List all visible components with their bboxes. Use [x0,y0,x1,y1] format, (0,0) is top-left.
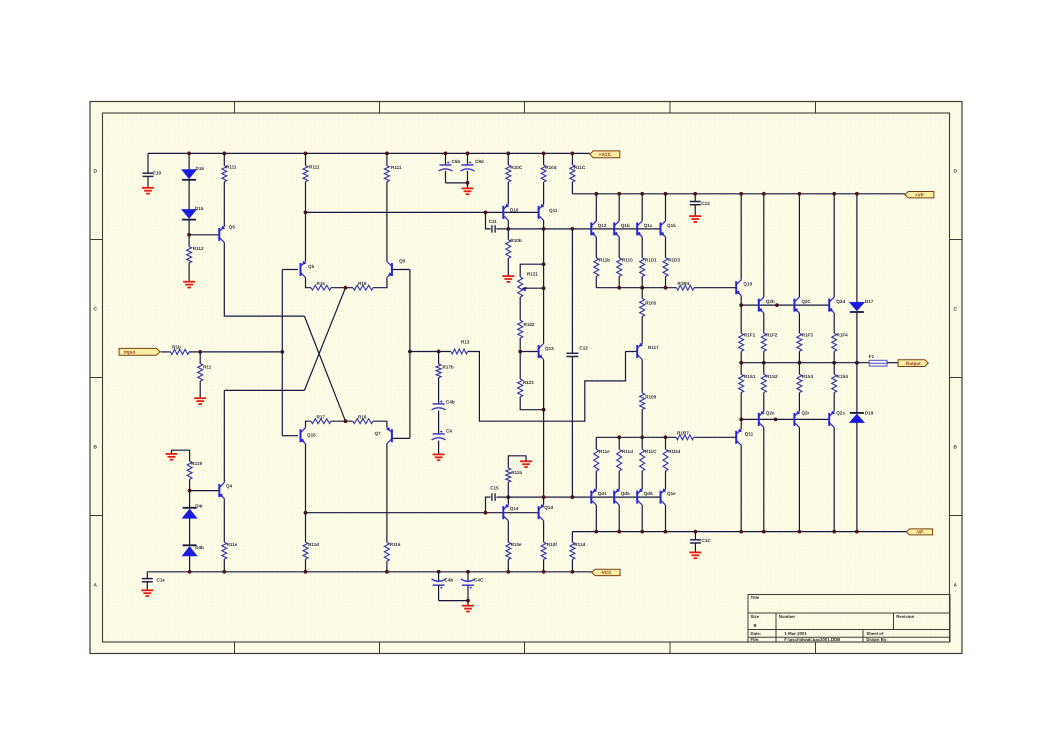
wire R1F2-out [763,351,765,362]
svg-text:R17b: R17b [443,364,454,369]
svg-text:Q2r: Q2r [801,410,809,415]
svg-text:C1C: C1C [702,538,712,543]
capacitor C6 [445,153,447,165]
svg-text:R117: R117 [648,345,659,350]
wire output base line top [741,304,829,306]
transistor Qd5 [613,491,615,504]
wire Q11e down [543,229,545,344]
junction -VCC R116 [385,570,389,574]
svg-text:Q1e: Q1e [667,491,676,496]
power port +VP [905,192,934,198]
wire rail-R111a [223,153,225,165]
svg-text:-VP: -VP [916,530,924,535]
junction -VCC R11d [571,570,575,574]
svg-text:Qd6: Qd6 [644,491,653,496]
wire Q12 collector [595,194,597,221]
svg-text:R111: R111 [391,165,402,170]
wire Q2s collector [833,427,835,531]
capacitor C16 [694,532,696,540]
svg-text:R11d: R11d [308,542,319,547]
resistor R111c [305,153,307,165]
wire R15-R16 [331,287,353,289]
transistor Q2d [828,299,830,312]
wire Q17 base [392,437,410,439]
svg-text:R11: R11 [203,365,212,370]
transistor Q5 [300,263,302,276]
resistor R1S2 [763,363,765,375]
transistor Q2r [793,413,795,426]
svg-text:R11d: R11d [622,449,633,454]
transistor Q14 [502,506,504,519]
svg-text:R11C: R11C [645,449,657,454]
resistor R123 [519,352,521,380]
wire Q19 collector [740,194,742,280]
wire R1Dd-Q1e [665,471,667,489]
junction top rail R111a [222,152,226,156]
wire mid rail bottom [306,512,539,514]
junction -VCC diodes [188,570,192,574]
svg-text:B: B [954,445,958,451]
wire R119-node [189,479,191,508]
junction rail C4C [466,570,470,574]
transistor Q1b [613,222,615,235]
svg-text:D16: D16 [196,166,205,171]
resistor R1F2 [761,333,766,351]
transistor Q1e [660,491,662,504]
junction -VP rail Qd6 [640,530,644,534]
wire D17 column [856,194,858,303]
resistor R1F3 [797,333,802,351]
svg-text:R16: R16 [358,281,367,286]
wire node-Q6 base [189,234,219,236]
junction -VCC R107 [506,570,510,574]
wire R1R7-Q21 [694,436,737,438]
wire Qd5 collector [618,505,620,531]
svg-text:R116: R116 [390,542,401,547]
svg-text:C15: C15 [490,485,499,490]
wire R11b-line497 [507,482,509,497]
border zone ticks [234,102,236,114]
ground C19 [142,187,154,189]
junction trim wiper [542,286,546,290]
wire R111a-Q6 [223,182,225,227]
svg-text:Input: Input [124,350,136,355]
junction output Q19col [739,361,743,365]
junction R17b tap [437,350,441,354]
resistor R11 column [199,352,201,364]
wire C11-line228 [496,228,660,230]
wire Q2h emitter [763,313,765,333]
svg-text:Q1b: Q1b [621,223,630,228]
svg-text:Q13: Q13 [545,346,554,351]
resistor R1Dd [663,449,668,471]
junction +VP C13 [693,192,697,196]
junction +VP rail Q15 [664,192,668,196]
svg-text:R110: R110 [622,258,633,263]
transistor Q6 [218,228,220,241]
transistor Q15 [660,222,662,235]
resistor R119 [187,461,192,479]
junction +VP rail Q12 [594,192,598,196]
wire X diagonal B [304,288,345,391]
junction rail R11C [571,152,575,156]
svg-text:R1F1: R1F1 [744,333,756,338]
svg-text:Sheet of: Sheet of [866,631,884,636]
resistor R111b column [386,153,388,165]
ground R10b [502,275,514,277]
junction driver common 2 [640,286,644,290]
wire Q2e collector [763,427,765,531]
resistor R15 [311,285,331,290]
wire R116-rail [386,561,388,572]
wire gnd-R119 [172,450,190,461]
resistor R105 [641,288,643,299]
resistor R13 [451,349,468,354]
resistor R10d [543,153,545,165]
capacitor C12 [566,352,578,354]
svg-text:D: D [94,169,98,175]
junction -VP rail Qd5 [617,530,621,534]
svg-text:Number: Number [779,614,796,619]
junction C4C join [466,599,470,603]
resistor R1D3 [663,258,668,277]
transistor Q2C [793,299,795,312]
svg-text:Q2e: Q2e [766,410,775,415]
svg-text:Size: Size [751,614,760,619]
ground Q4 bias [166,453,178,455]
wire Q2d emitter [833,313,835,333]
svg-text:R1F2: R1F2 [766,333,778,338]
title block [748,595,950,643]
resistor R11d [617,449,622,471]
wire R11C-Qd6 [641,471,643,489]
junction +VP rail Q2h [762,192,766,196]
wire D15-node [188,220,190,247]
svg-text:C: C [954,307,958,313]
resistor R11b [506,468,511,482]
junction X upper [344,286,348,290]
resistor R1S4 [833,363,835,375]
svg-text:R11b: R11b [599,258,610,263]
junction mid bottom rail Q16col [304,570,308,574]
wire output line [741,362,869,364]
wire Q17 collector column [386,444,388,543]
junction driver common b1 [617,435,621,439]
wire tap down [486,212,491,229]
wire D3-rail [189,556,191,572]
svg-text:C: C [94,307,98,313]
transistor Q9 [391,263,393,276]
svg-text:Q5: Q5 [308,264,315,269]
wire Q2d collector [833,194,835,297]
svg-text:R10d: R10d [545,165,556,170]
wire Q12 emitter [595,237,597,258]
ground C6C8 [467,183,469,188]
wire Q21 collector [740,419,742,429]
junction base line bottom Q19col [739,418,743,422]
resistor R1b [171,349,190,354]
diode D4 [183,509,197,518]
svg-text:D4b: D4b [195,545,204,550]
junction input node A [198,350,202,354]
svg-text:R13: R13 [461,339,470,344]
diode D17 [850,303,864,311]
svg-text:Q2s: Q2s [836,410,845,415]
svg-text:Q7: Q7 [375,431,382,436]
svg-text:R122: R122 [524,322,535,327]
ground C13 [689,215,701,217]
wire +VCC top rail [148,152,590,154]
junction driver common 3 [664,286,668,290]
wire input vertical [281,270,283,436]
resistor R11C [571,153,573,164]
wire R1D3-line [665,276,667,287]
svg-text:Q14: Q14 [510,506,519,511]
wire diode column [188,153,190,169]
svg-text:R1D3: R1D3 [668,258,680,263]
junction output Q2d [832,361,836,365]
svg-text:R11C: R11C [574,165,586,170]
transistor Q4 [218,484,220,497]
svg-text:Q12: Q12 [598,223,607,228]
wire R18-Q17 [373,421,387,428]
trimmer R121 [518,277,523,297]
junction output Q2C [798,361,802,365]
wire D19 upper [856,363,858,413]
resistor R16 [353,285,373,290]
svg-text:+VCC: +VCC [599,152,612,157]
svg-text:R1S2: R1S2 [766,374,778,379]
resistor R17b [438,352,440,365]
svg-text:R10e: R10e [511,542,522,547]
svg-text:R1D1: R1D1 [645,258,657,263]
svg-text:Q11: Q11 [549,208,558,213]
wire X diagonal A [304,316,345,421]
transistor Q1c [636,222,638,235]
wire Q14 emitter [507,497,509,505]
wire tap up [486,497,491,513]
svg-text:R1F3: R1F3 [802,333,814,338]
junction bias base node [518,350,522,354]
svg-text:C11: C11 [489,219,498,224]
wire Q2C emitter [798,313,800,333]
junction driver common b3 [664,435,668,439]
wire R1b-node [189,351,282,353]
svg-text:-VCC: -VCC [600,570,612,575]
port Input [119,348,160,355]
wire -VP rail [572,531,906,533]
wire Q11 emitter [543,220,545,229]
wire Q16 upper [306,421,312,428]
wire trim wiper [524,287,544,289]
junction input node B [280,350,284,354]
resistor R18 [353,419,373,424]
outer border frame [90,102,962,654]
junction base line bottom [774,418,778,422]
wire Q10 emitter [507,220,509,229]
wire Q5 collector [305,212,307,261]
svg-text:C1e: C1e [157,577,166,582]
junction mid rail bottom left [304,511,308,515]
wire trim top [520,264,543,277]
svg-text:A: A [94,583,98,589]
wire D19 lower [856,422,858,531]
svg-text:R10C: R10C [510,165,522,170]
capacitor C11 [491,225,493,233]
svg-text:D17: D17 [865,299,874,304]
junction +VP rail Q19 [739,192,743,196]
wire gnd-R11b [508,456,526,468]
capacitor C5 [440,430,442,432]
wire Q1b collector [618,194,620,221]
junction rail R10d [542,152,546,156]
svg-text:R15: R15 [317,281,326,286]
transistor Q2s [828,413,830,426]
wire Q1b emitter [618,237,620,258]
wire Q2h collector [763,194,765,297]
svg-text:R111: R111 [309,164,320,169]
svg-text:D15: D15 [195,206,204,211]
svg-text:Q2C: Q2C [801,299,811,304]
junction -VCC R114 [222,570,226,574]
wire Q19 emitter [740,296,742,305]
svg-text:C19: C19 [153,171,162,176]
svg-text:R119: R119 [191,461,202,466]
wire R16-Q9 [373,278,387,288]
svg-text:C4: C4 [446,428,452,433]
wire Q5 emitter [306,278,312,288]
junction -VP rail Qd1 [594,530,598,534]
svg-text:C13: C13 [701,201,710,206]
svg-text:R1Dd: R1Dd [668,449,680,454]
junction mid rail bottom tap [484,511,488,515]
resistor R1D1 [640,258,645,277]
junction top rail D16 [187,152,191,156]
svg-text:R1F4: R1F4 [837,333,849,338]
svg-text:R11b: R11b [511,470,522,475]
svg-text:R1S3: R1S3 [802,374,814,379]
wire R11b-line [595,276,597,287]
resistor R17 [311,419,331,424]
capacitor C19 [147,153,149,173]
svg-text:R1R4: R1R4 [678,281,690,286]
transistor Qd1 [590,491,592,504]
svg-text:C6b: C6b [452,159,461,164]
resistor R11C [640,449,645,471]
junction base line top [775,303,779,307]
wire comp column [571,229,573,353]
wire R11d top [618,437,620,449]
wire output base line bottom [741,418,829,420]
wire driver common top [596,287,676,289]
svg-text:R11e: R11e [227,542,238,547]
resistor R10C [507,153,509,165]
ground C5 [433,453,445,455]
transistor Q11 [538,206,540,219]
wire Q5 base [282,269,298,271]
wire Q16 lower [305,444,307,513]
junction rail R10C [506,152,510,156]
diode D15 [182,210,196,219]
junction X lower [344,419,348,423]
junction -VCC R108 [542,570,546,574]
svg-text:A: A [954,583,958,589]
wire Q1c collector [641,194,643,221]
svg-text:R11e: R11e [599,449,610,454]
svg-text:R112: R112 [193,246,204,251]
wire Q16 base [282,435,298,437]
svg-text:R10b: R10b [510,238,521,243]
wire C6-C8 join [446,182,468,184]
diode D3 [183,547,197,556]
svg-text:C12: C12 [579,345,588,350]
svg-text:D4r: D4r [195,504,203,509]
wire C15-line497 [496,496,660,498]
svg-text:Q1c: Q1c [644,223,653,228]
junction Q11e [542,227,546,231]
ground R112 [183,281,195,283]
wire R1D1-line [641,276,643,287]
resistor R1S1 [740,363,742,375]
svg-text:Output: Output [906,361,922,366]
wire R1Dd top [665,437,667,449]
svg-text:R17: R17 [317,414,326,419]
wire R114-rail [223,559,225,572]
junction -VP rail D19 [855,530,859,534]
junction top rail R111c [304,152,308,156]
wire R11e-Qd1 [595,471,597,489]
resistor R112 [187,247,192,263]
power port +VCC [590,151,620,158]
wire Q4 emitter [223,499,225,543]
svg-text:D19: D19 [865,410,874,415]
wire C4b-C4C join [439,600,468,602]
svg-text:1-Mar-2001: 1-Mar-2001 [784,631,807,636]
resistor R1R7 [676,435,694,440]
transistor Q13 [538,345,540,358]
junction Q4 base node [188,489,192,493]
wire D16-D15 [188,180,190,210]
wire Q1e collector [665,505,667,531]
junction rail C8 [466,152,470,156]
junction driver common 1 [617,286,621,290]
svg-text:B: B [94,445,98,451]
capacitor C100 [146,572,148,579]
junction C8 join [466,181,470,185]
wire Q2r collector [798,427,800,531]
svg-text:R121: R121 [527,272,538,277]
transistor Q2e [758,413,760,426]
junction -VP rail Q2r [798,530,802,534]
junction rail C6 [444,152,448,156]
wire Q4 collector column [223,390,225,482]
wire Q15 collector [665,194,667,221]
svg-text:Q15: Q15 [667,223,676,228]
svg-text:R109: R109 [645,394,656,399]
resistor R107 [507,521,509,543]
junction +VP rail Q2C [798,192,802,196]
wire R122-node [519,338,521,351]
wire Q9 base [392,269,410,271]
svg-text:R123: R123 [523,380,534,385]
junction trim top [542,262,546,266]
junction line497 Q1d [542,495,546,499]
fuse F1 [869,360,887,366]
wire X lower-left [224,389,304,391]
resistor R122 [518,320,523,338]
resistor R110 [617,258,622,277]
capacitor C8 [467,153,469,165]
